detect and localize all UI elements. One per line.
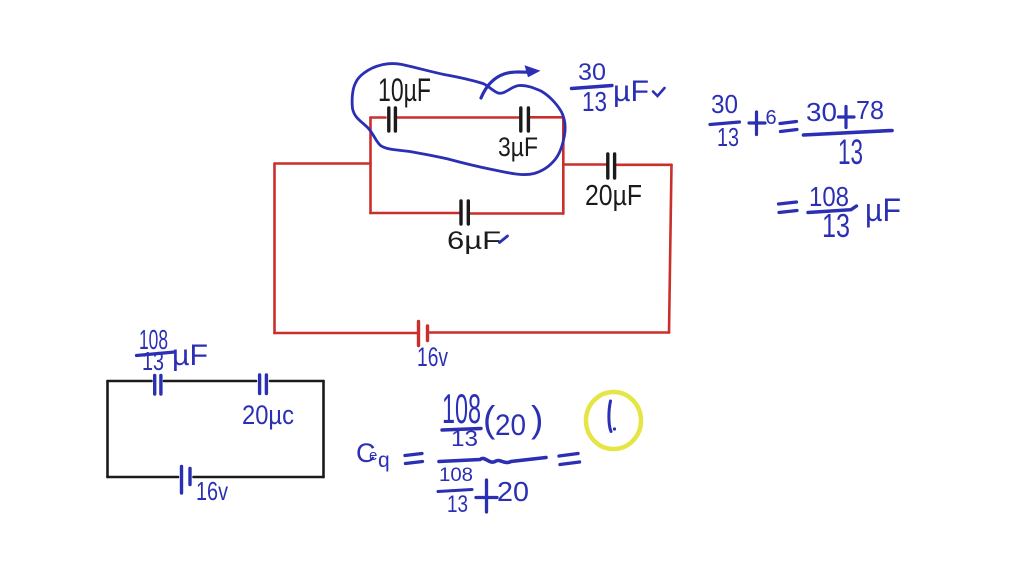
svg-text:3µF: 3µF	[498, 132, 538, 162]
svg-text:16v: 16v	[196, 476, 228, 506]
svg-text:10µF: 10µF	[378, 72, 431, 108]
svg-text:20: 20	[495, 409, 526, 442]
svg-text:108: 108	[439, 465, 473, 486]
svg-text:20µc: 20µc	[242, 400, 294, 430]
svg-text:30: 30	[578, 59, 606, 86]
svg-text:6µF: 6µF	[447, 227, 501, 255]
svg-text:20: 20	[497, 476, 529, 507]
svg-text:13: 13	[582, 86, 607, 117]
svg-text:µF: µF	[172, 339, 208, 372]
svg-text:13: 13	[142, 346, 164, 376]
svg-text:6: 6	[766, 107, 777, 129]
svg-text:16v: 16v	[417, 342, 448, 372]
svg-text:20µF: 20µF	[585, 180, 642, 212]
svg-text:30: 30	[711, 89, 738, 119]
svg-text:30: 30	[806, 97, 837, 127]
svg-text:13: 13	[447, 491, 468, 518]
svg-text:): )	[531, 399, 543, 440]
svg-text:µF: µF	[613, 75, 649, 108]
svg-text:108: 108	[442, 385, 481, 432]
svg-text:13: 13	[838, 133, 863, 172]
svg-text:e: e	[369, 447, 377, 464]
svg-text:q: q	[378, 449, 390, 472]
svg-text:78: 78	[856, 95, 884, 125]
svg-text:µF: µF	[865, 192, 901, 228]
svg-text:13: 13	[717, 122, 739, 152]
